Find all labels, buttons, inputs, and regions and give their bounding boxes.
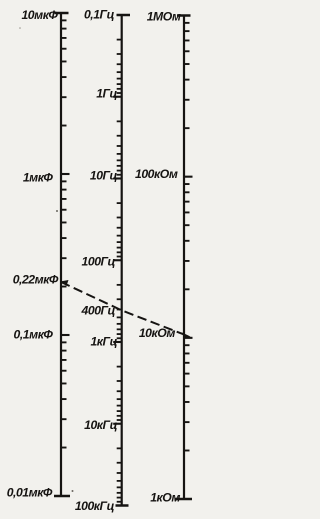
- right scale tick marks: [184, 23, 193, 451]
- svg-text:0,22мкФ: 0,22мкФ: [13, 273, 59, 287]
- svg-text:1мкФ: 1мкФ: [23, 171, 54, 185]
- left scale bottom end bar: [54, 495, 70, 498]
- svg-text:10кОм: 10кОм: [139, 326, 176, 340]
- svg-text:100Гц: 100Гц: [82, 255, 116, 269]
- right scale axis (resistance): [183, 16, 185, 500]
- svg-text:1МОм: 1МОм: [147, 9, 181, 23]
- left scale tick marks: [61, 20, 70, 447]
- middle scale bottom end bar: [116, 504, 129, 507]
- svg-text:10мкФ: 10мкФ: [21, 8, 58, 22]
- scan noise speck 3: [19, 27, 21, 29]
- svg-text:10кГц: 10кГц: [84, 418, 117, 432]
- svg-text:0,1Гц: 0,1Гц: [84, 8, 115, 22]
- svg-text:400Гц: 400Гц: [81, 304, 116, 318]
- svg-text:1кОм: 1кОм: [150, 490, 180, 504]
- svg-text:10Гц: 10Гц: [90, 169, 118, 183]
- svg-text:0,01мкФ: 0,01мкФ: [7, 486, 53, 500]
- right scale bottom end bar: [175, 498, 192, 501]
- scan noise speck 1: [56, 210, 58, 212]
- arrowhead at left end of dashed line: [60, 280, 69, 286]
- svg-text:100кГц: 100кГц: [75, 499, 115, 513]
- svg-text:1кГц: 1кГц: [90, 335, 117, 349]
- scan noise speck 2: [72, 490, 74, 492]
- svg-text:1Гц: 1Гц: [96, 87, 117, 101]
- dashed index line from 0,22мкФ through 400Гц to 10кОм: [61, 282, 184, 335]
- svg-text:100кОм: 100кОм: [135, 167, 178, 181]
- left scale top end bar: [55, 12, 69, 15]
- middle scale axis (frequency): [121, 15, 123, 506]
- middle scale tick marks: [113, 40, 122, 502]
- right scale top end bar: [177, 14, 191, 17]
- left scale axis (capacitance): [60, 13, 62, 496]
- middle scale top end bar: [117, 14, 131, 17]
- svg-text:0,1мкФ: 0,1мкФ: [14, 328, 54, 342]
- arrowhead at right end of dashed line: [182, 332, 191, 339]
